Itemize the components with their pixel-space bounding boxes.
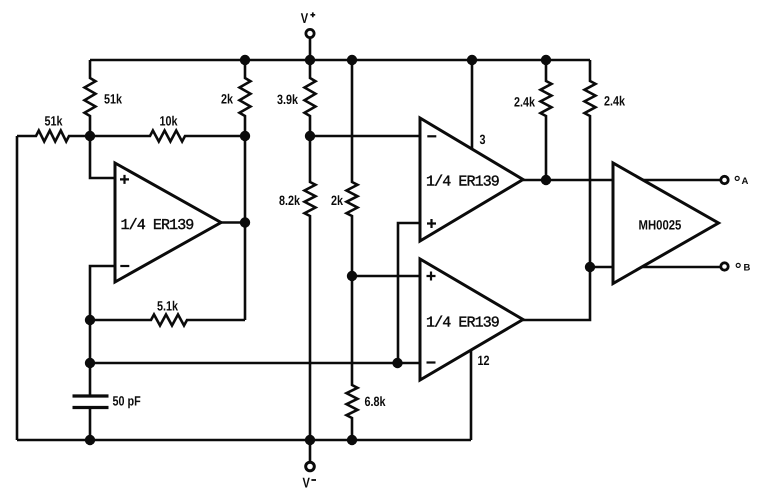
- svg-text:1/4 ER139: 1/4 ER139: [426, 174, 499, 191]
- svg-text:A: A: [742, 176, 749, 187]
- node op1 output: [240, 217, 250, 227]
- svg-text:3.9k: 3.9k: [277, 92, 298, 107]
- resistor 51k (vertical, left): [85, 60, 123, 136]
- svg-text:MH0025: MH0025: [639, 217, 682, 232]
- svg-text:1/4 ER139: 1/4 ER139: [121, 217, 194, 234]
- op-amp U2 1/4 ER139 (upper right): [420, 118, 523, 241]
- wire left feedback vertical: [16, 136, 19, 440]
- resistor 2.4k (second): [585, 60, 626, 267]
- resistor 8.2k: [279, 136, 316, 440]
- svg-text:2.4k: 2.4k: [514, 94, 535, 109]
- wire integrator output bus (y=363): [90, 362, 420, 365]
- node pin3 top: [467, 55, 477, 65]
- wire op1 output: [221, 221, 245, 224]
- capacitor 50 pF: [73, 394, 141, 441]
- resistor 6.8k: [347, 276, 386, 440]
- node 6.8k bottom: [347, 435, 357, 445]
- node 10k/2k: [240, 131, 250, 141]
- wire op1 inverting input: [90, 266, 115, 320]
- wire buffer input B: [590, 266, 613, 269]
- wire 2k node down to 5.1k: [244, 136, 247, 320]
- svg-text:51k: 51k: [45, 114, 63, 129]
- node cap / bottom rail: [85, 435, 95, 445]
- output terminal B: [721, 263, 751, 274]
- resistor 3.9k: [277, 60, 316, 136]
- svg-text:B: B: [744, 263, 751, 274]
- resistor 2k (vertical, x=352): [331, 60, 358, 276]
- wire output A: [643, 179, 720, 182]
- resistor 2.4k (first): [514, 60, 552, 180]
- node op3+ / 2k: [347, 271, 357, 281]
- node 5.1k left: [85, 315, 95, 325]
- wire op3 output: [523, 267, 590, 320]
- resistor 5.1k: [90, 299, 245, 326]
- node 2k top: [240, 55, 250, 65]
- resistor 51k (horizontal, far left): [17, 114, 90, 142]
- buffer U4 MH0025: [613, 163, 719, 284]
- svg-text:V: V: [301, 10, 308, 26]
- svg-text:10k: 10k: [160, 114, 178, 129]
- resistor 10k: [90, 114, 245, 142]
- node 2k(x352) top: [347, 55, 357, 65]
- svg-text:1/4 ER139: 1/4 ER139: [426, 315, 499, 332]
- node integrator/cap: [85, 358, 95, 368]
- node 3.9k/8.2k: [305, 131, 315, 141]
- svg-text:3: 3: [480, 132, 486, 147]
- wire op2 output to buffer input A: [523, 179, 613, 182]
- op-amp U3 1/4 ER139 (lower right): [420, 259, 523, 380]
- svg-text:2k: 2k: [221, 92, 233, 107]
- svg-text:8.2k: 8.2k: [279, 193, 300, 208]
- wire op2 inverting input: [310, 135, 420, 138]
- svg-text:51k: 51k: [104, 92, 122, 107]
- wire node to op1 noninverting input: [90, 136, 115, 178]
- output terminal A: [721, 176, 749, 187]
- node V- rail center: [305, 435, 315, 445]
- node V+ rail center: [305, 55, 315, 65]
- svg-text:5.1k: 5.1k: [157, 299, 178, 314]
- svg-text:V: V: [303, 475, 310, 491]
- wire op2 noninverting input: [398, 223, 420, 363]
- V- supply terminal: [303, 440, 317, 490]
- pin 3 supply wire: [472, 60, 486, 150]
- svg-text:12: 12: [478, 353, 490, 368]
- resistor 2k (vertical, x=245): [221, 60, 251, 136]
- node op3 out / buffer B: [585, 262, 595, 272]
- wire bottom V- rail: [17, 439, 471, 442]
- wire output B: [642, 266, 720, 269]
- node op2 out / 2.4k: [541, 175, 551, 185]
- svg-text:6.8k: 6.8k: [365, 394, 386, 409]
- V+ supply terminal: [301, 10, 315, 60]
- node 2.4k top: [541, 55, 551, 65]
- op-amp U1 1/4 ER139 (left): [115, 163, 221, 282]
- wire top V+ rail: [90, 59, 590, 62]
- node bus to op2+: [392, 358, 402, 368]
- node summing left: [85, 131, 95, 141]
- pin 12 supply wire: [471, 351, 490, 440]
- wire op3 noninverting input: [352, 275, 420, 278]
- svg-text:50 pF: 50 pF: [113, 394, 141, 409]
- wire integrator node down to capacitor: [89, 320, 92, 396]
- svg-text:2.4k: 2.4k: [604, 94, 625, 109]
- svg-text:2k: 2k: [331, 193, 343, 208]
